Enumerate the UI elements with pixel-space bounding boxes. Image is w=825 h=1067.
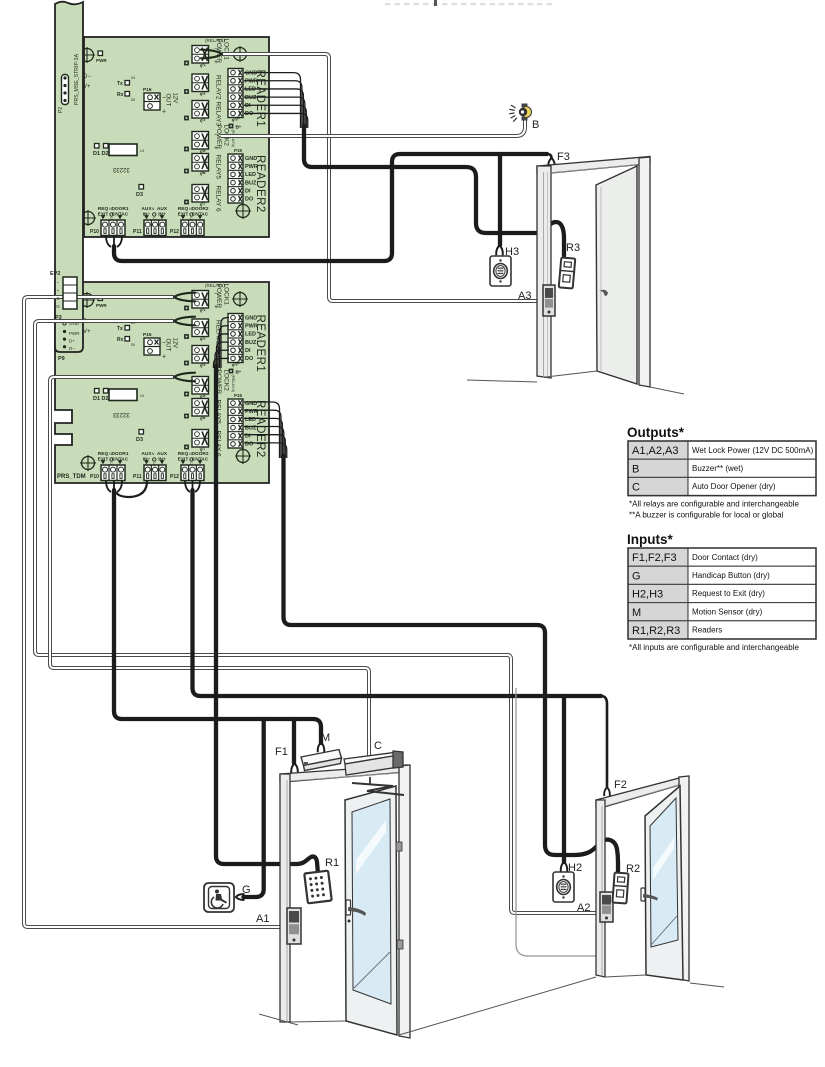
electric strike A3 bbox=[543, 285, 555, 316]
svg-text:LOCK2: LOCK2 bbox=[223, 370, 230, 392]
mounting hole bottom-right bbox=[237, 205, 250, 218]
svg-text:PWR: PWR bbox=[96, 58, 107, 63]
relay terminal P6 RELAY5 bbox=[192, 399, 209, 417]
svg-text:32233: 32233 bbox=[112, 411, 129, 417]
glass door leaf 1 bbox=[345, 786, 397, 1035]
svg-text:RELAY 6: RELAY 6 bbox=[215, 186, 222, 213]
svg-text:PRS_TDM: PRS_TDM bbox=[57, 474, 86, 480]
loop at F2 bbox=[604, 787, 610, 796]
floor lines door 1 bbox=[259, 1014, 298, 1025]
wire fan READER2 board2 bbox=[244, 402, 280, 458]
svg-text:F1,F2,F3: F1,F2,F3 bbox=[632, 552, 677, 564]
svg-text:READER2: READER2 bbox=[254, 400, 266, 458]
svg-text:**A buzzer is configurable for: **A buzzer is configurable for local or … bbox=[629, 511, 784, 520]
door frame 1 lintel bbox=[280, 765, 407, 782]
svg-text:D1 D2: D1 D2 bbox=[93, 151, 109, 157]
svg-text:M: M bbox=[632, 607, 641, 619]
wire P12 board2 to door contact F2 bbox=[193, 490, 602, 696]
loop at M bbox=[318, 742, 325, 752]
svg-text:(RELAY1): (RELAY1) bbox=[205, 283, 225, 288]
svg-text:Auto Door Opener (dry): Auto Door Opener (dry) bbox=[692, 482, 776, 491]
svg-text:F3: F3 bbox=[557, 151, 570, 163]
door frame 1 left jamb bbox=[280, 774, 290, 1022]
wire relay B* to buzzer B bbox=[221, 119, 525, 136]
svg-text:P2: P2 bbox=[58, 107, 64, 113]
svg-text:PWR: PWR bbox=[96, 303, 107, 308]
svg-text:P10: P10 bbox=[90, 474, 99, 480]
PWR LED bbox=[98, 296, 103, 301]
card reader R3 bbox=[559, 257, 576, 288]
svg-text:P16: P16 bbox=[143, 332, 152, 338]
svg-text:DI: DI bbox=[245, 188, 251, 194]
svg-text:DO: DO bbox=[245, 356, 254, 362]
hinges door 1 bbox=[396, 842, 402, 851]
svg-text:READER1: READER1 bbox=[254, 70, 266, 128]
terminal fork P1 board2 bbox=[174, 293, 195, 297]
svg-text:*All inputs are configurable a: *All inputs are configurable and interch… bbox=[629, 643, 799, 652]
svg-text:AUX: AUX bbox=[157, 451, 168, 457]
mounting hole top-right bbox=[234, 48, 247, 61]
svg-text:C: C bbox=[374, 740, 382, 752]
svg-text:+: + bbox=[162, 354, 166, 361]
PCB board controller 1 bbox=[84, 37, 269, 237]
svg-text:P10: P10 bbox=[90, 229, 99, 235]
door frame 3 lintel bbox=[537, 157, 650, 174]
svg-text:B: B bbox=[632, 463, 639, 475]
svg-text:A2: A2 bbox=[577, 902, 590, 914]
svg-text:Request to Exit (dry): Request to Exit (dry) bbox=[692, 589, 765, 598]
svg-text:V+: V+ bbox=[83, 84, 91, 90]
wire LOCK1 POWER board2 to strike A1 bbox=[24, 297, 286, 927]
svg-text:(RELAY4): (RELAY4) bbox=[231, 375, 236, 393]
relay terminal P6 RELAY5 bbox=[192, 154, 209, 172]
svg-text:D4: D4 bbox=[131, 76, 135, 80]
door 1 handle bbox=[346, 900, 351, 915]
wire stubs P10 board1 bbox=[106, 236, 111, 247]
relay terminal P3 RELAY3 bbox=[192, 101, 209, 119]
loop at F1 bbox=[291, 763, 298, 773]
svg-text:DI: DI bbox=[245, 348, 251, 354]
svg-text:D1 D2: D1 D2 bbox=[93, 396, 109, 402]
svg-text:R2: R2 bbox=[626, 863, 640, 875]
loop at H2 bbox=[561, 862, 568, 872]
svg-text:R3: R3 bbox=[566, 242, 580, 254]
svg-text:R1,R2,R3: R1,R2,R3 bbox=[632, 625, 680, 637]
svg-text:H3: H3 bbox=[505, 246, 519, 258]
door closer arm door 1 bbox=[352, 783, 404, 795]
svg-text:F1: F1 bbox=[275, 746, 288, 758]
relay terminal P2 RELAY2 bbox=[192, 74, 209, 92]
svg-text:C: C bbox=[632, 482, 640, 494]
svg-text:M: M bbox=[321, 732, 330, 744]
svg-text:Wet Lock Power (12V DC 500mA): Wet Lock Power (12V DC 500mA) bbox=[692, 446, 814, 455]
svg-text:OUT: OUT bbox=[165, 94, 171, 107]
terminal fork P1 board1 bbox=[201, 50, 222, 54]
svg-text:D5: D5 bbox=[131, 343, 135, 347]
relay terminal P4 LOCK2 POWER bbox=[192, 377, 209, 395]
svg-text:(RELAY4): (RELAY4) bbox=[231, 130, 236, 148]
svg-text:Tx: Tx bbox=[117, 326, 123, 332]
wire fan READER1 board1 bbox=[244, 73, 301, 128]
svg-text:POWER: POWER bbox=[215, 125, 222, 150]
buzzer output marking B* bbox=[229, 124, 233, 128]
svg-text:A3: A3 bbox=[518, 290, 531, 302]
svg-text:+: + bbox=[57, 288, 60, 293]
svg-text:A1: A1 bbox=[256, 913, 269, 925]
relay terminal P1 LOCK1 POWER bbox=[192, 291, 209, 309]
svg-text:D−: D− bbox=[83, 74, 91, 80]
svg-text:DI: DI bbox=[245, 103, 251, 109]
svg-text:B: B bbox=[532, 119, 539, 131]
svg-text:READER2: READER2 bbox=[254, 155, 266, 213]
door 3 handle bbox=[599, 290, 608, 296]
svg-text:RELAY5: RELAY5 bbox=[215, 155, 222, 180]
mounting hole bottom-right bbox=[237, 450, 250, 463]
mounting hole bottom-left bbox=[82, 212, 95, 225]
diode D3 bbox=[139, 185, 144, 190]
svg-text:D5: D5 bbox=[131, 98, 135, 102]
svg-text:REQ: REQ bbox=[98, 451, 109, 457]
wire thin drop to F3 bbox=[547, 154, 552, 158]
mounting hole top-right bbox=[234, 293, 247, 306]
floor lines door 3 bbox=[467, 380, 537, 382]
svg-text:D−: D− bbox=[69, 346, 75, 351]
svg-text:REQ: REQ bbox=[178, 206, 189, 212]
svg-text:AUX: AUX bbox=[157, 206, 168, 212]
svg-text:Buzzer** (wet): Buzzer** (wet) bbox=[692, 464, 743, 473]
wire READER1 board1 to reader R3 bbox=[304, 126, 564, 256]
strip connector P2 bbox=[62, 75, 69, 105]
PCB board PRS_TDM (controller 2) bbox=[55, 282, 269, 483]
card reader R2 bbox=[612, 873, 628, 904]
svg-text:REQ: REQ bbox=[178, 451, 189, 457]
svg-text:DOOR1: DOOR1 bbox=[111, 451, 128, 457]
svg-text:PRS_MSE_STRIP-3A: PRS_MSE_STRIP-3A bbox=[74, 53, 80, 105]
wire stubs P12 board2 bbox=[185, 481, 190, 492]
svg-text:DOOR2: DOOR2 bbox=[191, 206, 208, 212]
wire LOCK1 POWER board1 to strike A3 bbox=[222, 54, 541, 301]
svg-text:Handicap Button (dry): Handicap Button (dry) bbox=[692, 571, 770, 580]
relay terminal P7 RELAY 6 bbox=[192, 430, 209, 448]
svg-text:P15: P15 bbox=[234, 393, 243, 398]
wire branch to handicap button G bbox=[244, 719, 264, 897]
svg-text:RELAY2: RELAY2 bbox=[215, 75, 222, 100]
svg-text:G: G bbox=[632, 570, 641, 582]
buzzer B bbox=[521, 107, 532, 118]
svg-text:P12: P12 bbox=[170, 229, 179, 235]
svg-text:RELAY3: RELAY3 bbox=[215, 102, 222, 127]
svg-text:U1: U1 bbox=[140, 394, 145, 398]
relay terminal P3 RELAY3 bbox=[192, 346, 209, 364]
svg-text:+: + bbox=[162, 109, 166, 116]
svg-text:DO: DO bbox=[245, 197, 254, 203]
svg-text:Readers: Readers bbox=[692, 626, 722, 635]
motion sensor M bbox=[301, 750, 342, 766]
svg-text:P11: P11 bbox=[133, 229, 142, 235]
wire READER2 board2 to reader R2 bbox=[284, 456, 619, 872]
svg-text:B*: B* bbox=[236, 125, 241, 131]
svg-text:OUT: OUT bbox=[165, 339, 171, 352]
loop at H3 bbox=[496, 245, 503, 255]
svg-text:(RELAY1): (RELAY1) bbox=[205, 38, 225, 43]
svg-text:Rx: Rx bbox=[117, 92, 124, 98]
wire branch to F1 bbox=[292, 719, 296, 763]
door frame 2 right post bbox=[679, 776, 689, 981]
door leaf 3 bbox=[596, 166, 637, 384]
door frame 3 left jamb bbox=[537, 166, 551, 378]
svg-text:D3: D3 bbox=[136, 192, 143, 198]
svg-text:Door Contact (dry): Door Contact (dry) bbox=[692, 553, 758, 562]
svg-text:Rx: Rx bbox=[117, 337, 124, 343]
svg-text:AUX: AUX bbox=[141, 206, 152, 212]
svg-text:PWR: PWR bbox=[69, 331, 80, 336]
svg-text:P9: P9 bbox=[58, 356, 65, 362]
svg-text:F2: F2 bbox=[614, 779, 627, 791]
svg-text:P16: P16 bbox=[143, 87, 152, 93]
READER1 terminal P14 bbox=[228, 314, 243, 363]
READER1 terminal P14 bbox=[228, 69, 243, 118]
svg-text:U1: U1 bbox=[140, 149, 145, 153]
request-to-exit button H2 bbox=[553, 872, 574, 902]
relay terminal P1 LOCK1 POWER bbox=[192, 46, 209, 64]
diodes D1 D2 bbox=[95, 144, 100, 149]
loop at F3 bbox=[548, 158, 555, 168]
wire P10 board1 to door contact F3 bbox=[114, 154, 547, 261]
terminal fork P2 board2 bbox=[174, 317, 195, 321]
door frame 3 right post bbox=[639, 157, 650, 387]
relay terminal P7 RELAY 6 bbox=[192, 185, 209, 203]
wire READER1 board2 to keypad reader R1 bbox=[216, 366, 318, 874]
wire RELAY2 board2 to strike A2 bbox=[35, 321, 602, 913]
svg-text:READER1: READER1 bbox=[254, 315, 266, 373]
svg-text:D3: D3 bbox=[136, 437, 143, 443]
PWR LED bbox=[98, 51, 103, 56]
electric strike A2 bbox=[600, 892, 613, 922]
wire thin drop to F2 bbox=[601, 696, 607, 787]
terminal fork P4 board2 bbox=[174, 373, 195, 377]
svg-text:D+: D+ bbox=[69, 339, 75, 344]
mounting hole top-left bbox=[81, 294, 94, 307]
svg-text:H2,H3: H2,H3 bbox=[632, 589, 663, 601]
wire stubs P10 board2 bbox=[106, 481, 111, 492]
request-to-exit button H3 bbox=[490, 256, 511, 286]
electric strike A1 bbox=[287, 908, 301, 944]
power strip PRS_MSE_STRIP-3A bbox=[55, 2, 83, 352]
svg-text:12V: 12V bbox=[172, 338, 178, 349]
loop at G bbox=[236, 894, 245, 900]
wire branch to request-to-exit H2 bbox=[562, 696, 566, 862]
svg-text:S: S bbox=[56, 296, 59, 301]
door frame 2 lintel bbox=[596, 777, 683, 807]
relay terminal P2 RELAY2 bbox=[192, 319, 209, 337]
wire P10 board2 to door contact F1 and motion sensor M bbox=[114, 490, 321, 743]
svg-text:V+: V+ bbox=[83, 329, 91, 335]
relay terminal P4 LOCK2 POWER bbox=[192, 132, 209, 150]
door frame 2 left jamb bbox=[596, 800, 605, 977]
floor lines door 2 bbox=[605, 975, 646, 977]
wall edge door 2 bbox=[516, 688, 596, 956]
svg-text:AUX: AUX bbox=[141, 451, 152, 457]
svg-text:A1,A2,A3: A1,A2,A3 bbox=[632, 445, 678, 457]
cropped text remnants top bbox=[385, 3, 391, 5]
svg-text:G: G bbox=[56, 304, 60, 309]
svg-text:DOOR1: DOOR1 bbox=[111, 206, 128, 212]
svg-text:Outputs*: Outputs* bbox=[627, 425, 685, 440]
svg-text:EP2: EP2 bbox=[50, 271, 60, 277]
mounting hole top-left bbox=[81, 49, 94, 62]
svg-text:P15: P15 bbox=[234, 148, 243, 153]
svg-text:DO: DO bbox=[245, 111, 254, 117]
svg-text:*All relays are configurable a: *All relays are configurable and interch… bbox=[629, 500, 799, 509]
svg-text:Motion Sensor (dry): Motion Sensor (dry) bbox=[692, 607, 763, 616]
wire branch to request-to-exit H3 bbox=[498, 154, 502, 245]
svg-text:32233: 32233 bbox=[112, 166, 129, 172]
svg-text:R1: R1 bbox=[325, 857, 339, 869]
wire LOCK2 POWER board2 to auto door opener C bbox=[50, 377, 369, 760]
buzzer output marking B* bbox=[229, 369, 233, 373]
svg-text:Inputs*: Inputs* bbox=[627, 532, 673, 547]
diodes D1 D2 bbox=[95, 389, 100, 394]
wire fan READER1 board2 bbox=[221, 318, 229, 368]
keypad reader R1 bbox=[304, 871, 331, 904]
glass door leaf 2 bbox=[645, 786, 683, 980]
svg-text:DOOR2: DOOR2 bbox=[191, 451, 208, 457]
door frame 1 right post bbox=[399, 765, 410, 1038]
svg-text:−: − bbox=[57, 280, 60, 285]
svg-text:P11: P11 bbox=[133, 474, 142, 480]
svg-text:P12: P12 bbox=[170, 474, 179, 480]
svg-text:B*: B* bbox=[236, 370, 241, 376]
IC U1 bbox=[109, 144, 137, 156]
svg-text:G: G bbox=[242, 884, 251, 896]
svg-text:REQ: REQ bbox=[98, 206, 109, 212]
IC U1 bbox=[109, 389, 137, 401]
svg-text:Tx: Tx bbox=[117, 81, 123, 87]
diode D3 bbox=[139, 430, 144, 435]
svg-text:H2: H2 bbox=[568, 862, 582, 874]
door 2 handle bbox=[641, 888, 645, 901]
mounting hole bottom-left bbox=[82, 457, 95, 470]
handicap button G bbox=[204, 883, 234, 912]
auto door opener C bbox=[344, 752, 399, 764]
svg-text:12V: 12V bbox=[172, 93, 178, 104]
